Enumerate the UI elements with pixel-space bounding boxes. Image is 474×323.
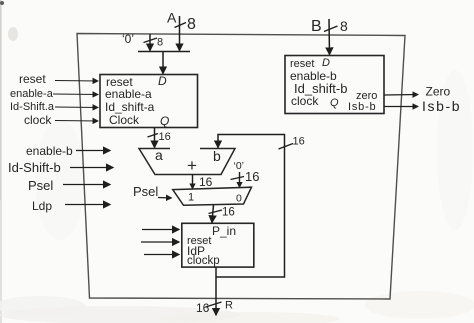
svg-text:Id-Shift.a: Id-Shift.a	[10, 101, 55, 113]
svg-text:16: 16	[245, 169, 259, 184]
wire register P control input 1	[142, 229, 179, 231]
concatenation bar node	[138, 51, 190, 53]
wire reset to register A	[55, 80, 98, 83]
bus slash mux output	[209, 210, 223, 214]
register B box U5	[285, 56, 384, 114]
wire register P control input 3	[144, 254, 179, 256]
svg-text:Id-Shift-b: Id-Shift-b	[8, 160, 61, 175]
svg-text:16: 16	[196, 301, 210, 315]
svg-text:enable-a: enable-a	[105, 87, 152, 101]
wire register A output to adder input a	[154, 128, 156, 148]
mux U3	[173, 187, 252, 205]
svg-text:b: b	[213, 148, 221, 164]
bus slash A	[175, 23, 187, 28]
svg-text:Ldp: Ldp	[32, 199, 52, 213]
wire Psel to mux	[158, 197, 172, 200]
wire enable-b into enclosure	[76, 150, 110, 152]
bus slash feedback	[279, 144, 294, 150]
svg-text:enable-b: enable-b	[26, 144, 73, 158]
svg-text:clock: clock	[24, 113, 52, 127]
svg-text:8: 8	[157, 37, 163, 49]
wire zero output	[384, 94, 418, 97]
svg-text:16: 16	[222, 207, 235, 219]
svg-text:16: 16	[159, 131, 171, 143]
svg-text:Psel: Psel	[133, 184, 158, 199]
wire Id-Shift.a to register A	[55, 106, 98, 109]
svg-text:B: B	[311, 18, 322, 35]
svg-text:‘0’: ‘0’	[234, 160, 245, 172]
wire '0' to mux	[239, 172, 241, 187]
wire clock to register A	[55, 120, 98, 123]
adder U2	[139, 149, 235, 175]
svg-text:Q: Q	[330, 97, 339, 109]
register P box U4	[182, 223, 254, 267]
svg-text:‘0’: ‘0’	[122, 32, 134, 46]
register A box U1	[100, 75, 198, 128]
wire feedback bottom segment	[216, 135, 285, 278]
scanner edge shading left	[0, 0, 2, 323]
bus slash '0' mux	[231, 177, 245, 180]
svg-text:Psel: Psel	[28, 178, 53, 193]
svg-text:Zero: Zero	[426, 85, 451, 99]
wire adder output to mux	[192, 175, 194, 189]
paper smudge top-left	[0, 1, 4, 5]
wire register P output down to R	[215, 267, 217, 315]
bus slash A output	[148, 134, 159, 138]
svg-text:P_in: P_in	[212, 224, 236, 238]
wire register P control input 2	[141, 241, 179, 243]
svg-text:clock: clock	[291, 94, 319, 108]
svg-text:1: 1	[188, 192, 194, 204]
wire concat to register A	[162, 52, 164, 74]
svg-text:8: 8	[340, 18, 348, 34]
svg-text:a: a	[155, 147, 163, 163]
svg-text:Clock: Clock	[109, 113, 140, 127]
svg-text:Isb-b: Isb-b	[422, 98, 461, 114]
wire mux output to register P	[212, 205, 214, 223]
wire A input	[179, 16, 181, 51]
svg-text:clockp: clockp	[187, 255, 220, 267]
wire Psel into enclosure	[63, 184, 110, 186]
svg-text:8: 8	[187, 16, 196, 33]
svg-text:16: 16	[199, 175, 213, 189]
outer enclosure box	[77, 34, 405, 300]
svg-text:R: R	[225, 300, 233, 312]
svg-text:0: 0	[236, 193, 242, 205]
wire '0' input	[149, 34, 151, 51]
wire Ldp into enclosure	[65, 204, 110, 206]
svg-text:enable-a: enable-a	[10, 88, 54, 100]
bus slash B	[324, 26, 338, 32]
wire B input	[328, 19, 331, 55]
wire Isb-b output	[384, 106, 418, 108]
svg-text:D: D	[158, 74, 167, 88]
bus slash '0'	[144, 38, 158, 43]
svg-text:A: A	[167, 10, 177, 26]
svg-text:Id_shift-a: Id_shift-a	[105, 100, 155, 114]
bus slash R output	[206, 302, 222, 307]
svg-text:D: D	[322, 57, 330, 69]
svg-text:16: 16	[293, 136, 305, 148]
wire Id-Shift-b into enclosure	[70, 167, 113, 169]
svg-text:+: +	[187, 156, 197, 175]
svg-text:reset: reset	[19, 72, 46, 86]
wire enable-a to register A	[53, 93, 98, 96]
svg-text:Isb-b: Isb-b	[348, 101, 376, 113]
svg-text:Q: Q	[160, 114, 169, 128]
